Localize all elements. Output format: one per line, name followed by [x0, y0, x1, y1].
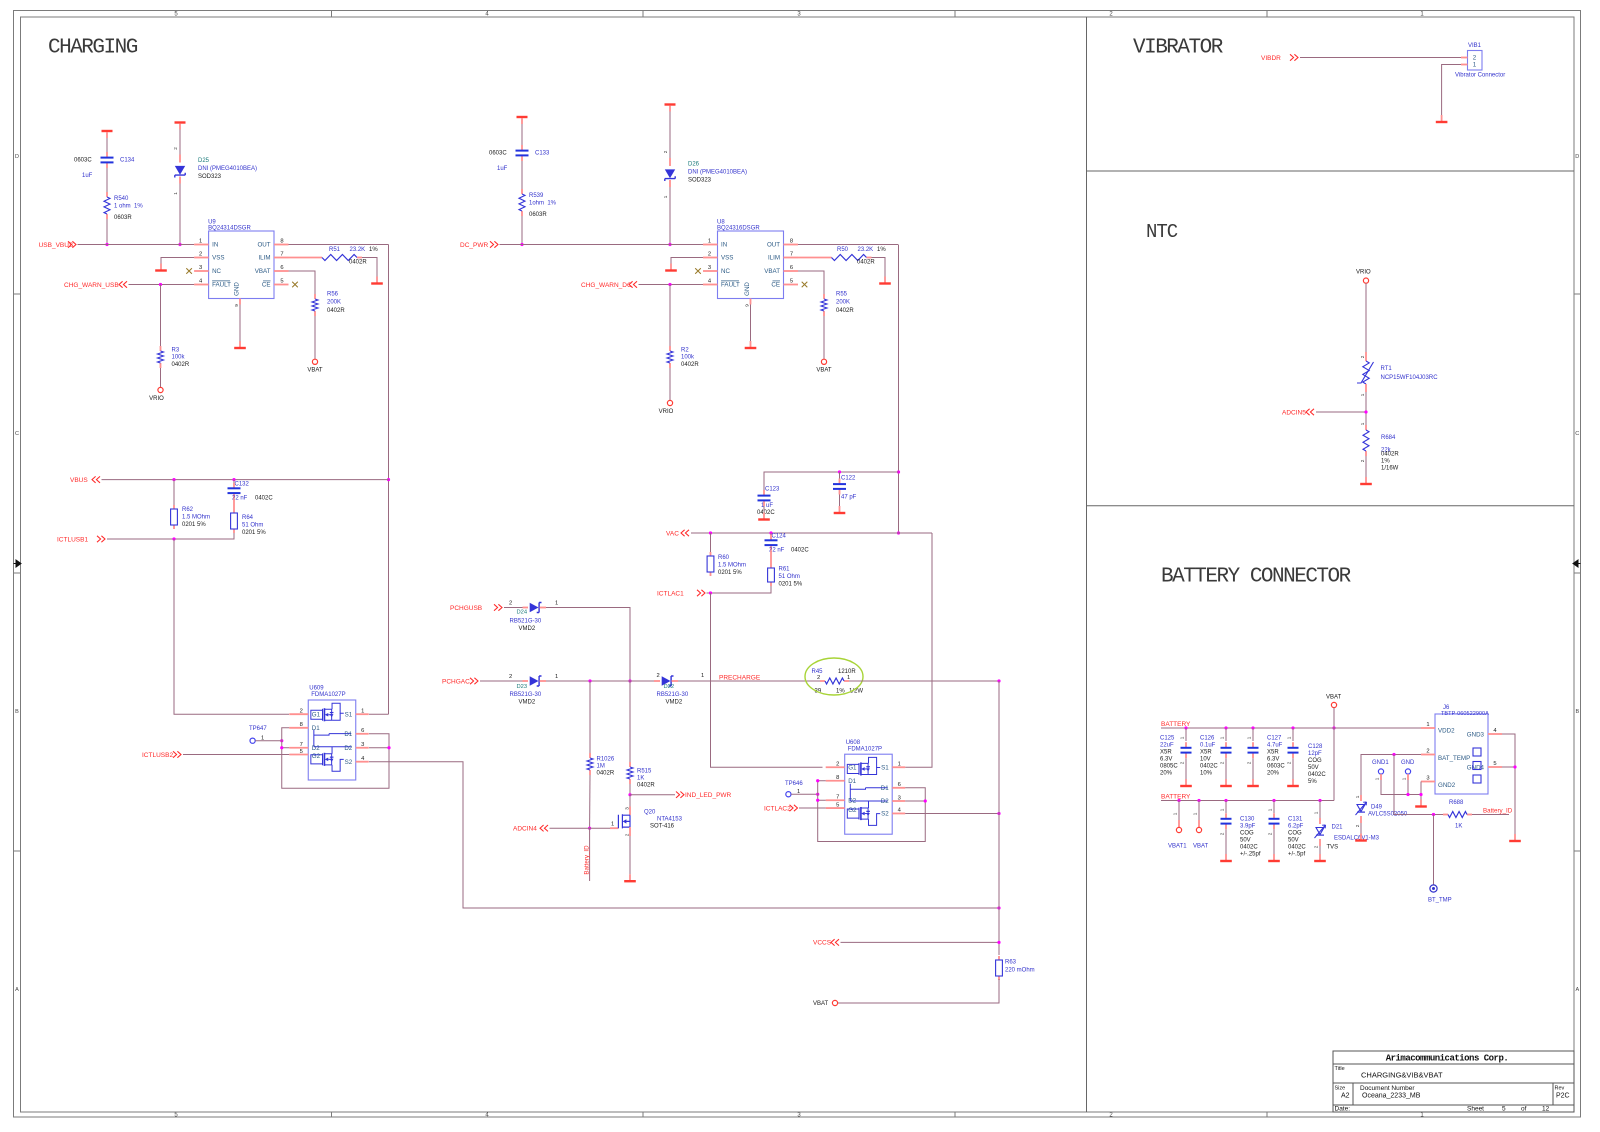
svg-text:BATTERY CONNECTOR: BATTERY CONNECTOR: [1161, 565, 1352, 588]
wire net ICTLUSB2 to U609 G2: [183, 754, 289, 756]
svg-text:VBAT1: VBAT1: [1168, 844, 1187, 850]
svg-text:PRECHARGE: PRECHARGE: [719, 674, 761, 681]
junction R515/Q20/IND_LED_PWR: [628, 793, 631, 796]
transistor Q20 (NTA4153 SOT-416): [610, 827, 618, 829]
resistor R515: [629, 762, 631, 767]
svg-text:S2: S2: [881, 811, 889, 818]
svg-text:1: 1: [1247, 736, 1252, 739]
svg-text:SOD323: SOD323: [198, 174, 222, 180]
svg-text:C124: C124: [772, 534, 787, 540]
svg-text:1: 1: [898, 762, 901, 768]
junction U609 pin3: [387, 746, 390, 749]
wire net VCCS: [841, 941, 1000, 943]
svg-text:7: 7: [300, 742, 303, 748]
terminal VBAT (bottom): [832, 1000, 837, 1005]
wire RT1 to ADCIN5 junction: [1365, 392, 1367, 425]
svg-text:SOD323: SOD323: [688, 178, 712, 184]
svg-text:0805C: 0805C: [1160, 764, 1178, 770]
resistor R63 (sense): [998, 956, 1000, 960]
svg-text:1: 1: [1473, 62, 1477, 69]
section divider NTC/BATTERY: [1087, 505, 1575, 507]
svg-text:B: B: [15, 709, 19, 715]
svg-text:C125: C125: [1160, 736, 1175, 742]
svg-text:IN: IN: [212, 242, 218, 249]
svg-text:R3: R3: [172, 348, 180, 354]
svg-text:VSS: VSS: [721, 255, 733, 262]
svg-text:VMD2: VMD2: [519, 626, 536, 632]
junction VCCS: [997, 941, 1000, 944]
svg-text:8: 8: [790, 239, 793, 245]
svg-text:R62: R62: [182, 507, 194, 513]
highlight ellipse around R45: [805, 658, 863, 695]
svg-text:2: 2: [173, 147, 178, 150]
svg-text:6: 6: [361, 728, 364, 734]
terminal BT_TMP: [1430, 885, 1437, 892]
svg-text:R51: R51: [329, 247, 341, 253]
svg-text:2: 2: [625, 833, 630, 836]
ground GND2/GND1/GND: [1420, 800, 1422, 806]
wire net USB_VBUS: [78, 244, 195, 246]
svg-text:C133: C133: [535, 151, 550, 157]
svg-text:VIB1: VIB1: [1468, 43, 1482, 49]
wire U8 GND pin 9: [750, 299, 752, 305]
svg-text:1: 1: [847, 675, 850, 681]
diode D23: [523, 680, 529, 682]
svg-text:ICTLUSB2: ICTLUSB2: [142, 752, 173, 759]
wire net PCHGUSB: [504, 607, 523, 609]
svg-text:D2: D2: [881, 798, 889, 805]
svg-text:C134: C134: [120, 158, 135, 164]
svg-text:TP646: TP646: [785, 781, 803, 787]
svg-text:VBAT: VBAT: [307, 368, 323, 374]
svg-text:NC: NC: [212, 268, 221, 275]
svg-text:S1: S1: [345, 711, 353, 718]
svg-text:RT1: RT1: [1381, 366, 1393, 372]
svg-text:U608: U608: [846, 740, 861, 746]
svg-text:CHG_WARN_DC: CHG_WARN_DC: [581, 282, 632, 289]
svg-text:2: 2: [1473, 55, 1477, 62]
junction C132/VBUS: [232, 478, 235, 481]
junction C131 top: [1272, 799, 1275, 802]
svg-text:C128: C128: [1308, 744, 1323, 750]
wire U609 S2 to lower bus: [369, 762, 999, 908]
wire U609 D1/D2 left loop: [282, 728, 389, 788]
wire net ICTLAC1: [707, 586, 772, 593]
ground R50: [884, 277, 886, 283]
svg-text:VBAT: VBAT: [813, 1001, 829, 1007]
wire net Battery_ID (J6 side): [1472, 814, 1509, 816]
svg-text:D22: D22: [664, 684, 675, 690]
junction ICTLAC1/R60: [709, 591, 712, 594]
resistor R60: [710, 533, 712, 552]
diode D21 (ESD TVS): [1319, 801, 1321, 819]
ground C127/C128 group: [1292, 779, 1294, 785]
svg-text:VBAT: VBAT: [255, 268, 271, 275]
svg-text:0603C: 0603C: [489, 151, 507, 157]
junction TP647: [280, 739, 283, 742]
svg-text:R60: R60: [718, 555, 730, 561]
wire to R3: [160, 285, 162, 347]
svg-text:1: 1: [1402, 777, 1407, 780]
svg-text:VSS: VSS: [212, 255, 224, 262]
ground U9 VSS: [160, 264, 162, 270]
section divider vertical: [1086, 17, 1088, 1112]
svg-text:R64: R64: [242, 515, 254, 521]
svg-text:D2: D2: [344, 745, 352, 752]
junction D24 branch: [628, 679, 631, 682]
svg-text:6.3V: 6.3V: [1160, 757, 1172, 763]
wire VBAT terminal to rail: [1333, 708, 1335, 728]
svg-text:3: 3: [361, 742, 364, 748]
wire to R2: [669, 285, 671, 347]
svg-text:5: 5: [300, 749, 303, 755]
svg-text:DNI (PMEG4010BEA): DNI (PMEG4010BEA): [688, 170, 747, 176]
wire R539 to input net: [521, 216, 523, 245]
svg-text:2: 2: [1180, 761, 1185, 764]
svg-text:ADCIN4: ADCIN4: [513, 826, 537, 833]
svg-text:9: 9: [234, 304, 239, 307]
svg-text:0402R: 0402R: [349, 260, 367, 266]
capacitor C122: [839, 472, 841, 480]
title block: [1333, 1051, 1574, 1112]
junction cap (C127 group) top: [1251, 726, 1254, 729]
svg-text:1/16W: 1/16W: [1381, 466, 1399, 472]
junction U608 pin3: [924, 799, 927, 802]
svg-text:0201 5%: 0201 5%: [779, 582, 803, 588]
junction CHG_WARN_USB / R3: [159, 283, 162, 286]
svg-text:0402C: 0402C: [757, 510, 775, 516]
svg-text:D21: D21: [1332, 825, 1344, 831]
svg-text:5: 5: [836, 802, 839, 808]
svg-text:D24: D24: [517, 610, 528, 616]
junction D21 top: [1318, 799, 1321, 802]
svg-text:1: 1: [1314, 811, 1319, 814]
svg-text:D25: D25: [198, 158, 210, 164]
wire net VAC rail: [691, 532, 932, 534]
ground Q20: [629, 874, 631, 880]
svg-text:1: 1: [199, 239, 202, 245]
svg-text:X5R: X5R: [1200, 750, 1212, 756]
wire net ICTLAC2 to U608 G2: [799, 807, 826, 809]
wire ICTLUSB1 to U609 G1: [174, 539, 289, 714]
svg-text:1: 1: [1173, 812, 1178, 815]
wire J6 GND2 to ground: [1420, 782, 1422, 800]
svg-text:GND3: GND3: [1467, 732, 1485, 739]
wire GND1 down: [1381, 780, 1421, 795]
svg-text:C122: C122: [841, 476, 856, 482]
svg-text:0402R: 0402R: [836, 308, 854, 314]
svg-text:6.3V: 6.3V: [1267, 757, 1279, 763]
svg-text:Date:: Date:: [1335, 1105, 1351, 1112]
wire VIB1 pin1 to ground: [1442, 65, 1461, 116]
svg-text:A2: A2: [1341, 1092, 1350, 1099]
svg-text:Size: Size: [1335, 1085, 1346, 1091]
svg-text:C: C: [15, 431, 19, 437]
svg-text:VBAT: VBAT: [1326, 695, 1342, 701]
svg-text:7: 7: [790, 252, 793, 258]
svg-text:G1: G1: [312, 711, 321, 718]
capacitor C134: [106, 152, 108, 157]
svg-text:NC: NC: [721, 268, 730, 275]
wire R56 to VBAT terminal: [314, 316, 316, 359]
svg-text:0402C: 0402C: [1240, 845, 1258, 851]
svg-text:10V: 10V: [1200, 757, 1211, 763]
resistor R61: [770, 551, 772, 564]
svg-text:BQ24314DSGR: BQ24314DSGR: [208, 226, 251, 232]
junction C124/VAC: [769, 531, 772, 534]
svg-text:+/-.5pf: +/-.5pf: [1288, 852, 1306, 858]
wire R50 to ground corner: [872, 258, 886, 277]
wire C123/C122 top rail: [764, 472, 899, 493]
svg-text:S1: S1: [881, 764, 889, 771]
IC U609 (FDMA1027P): [308, 700, 356, 780]
svg-text:1: 1: [1220, 736, 1225, 739]
wire R515 to IND_LED_PWR junction: [629, 784, 631, 795]
svg-text:0402C: 0402C: [1288, 845, 1306, 851]
svg-text:CHG_WARN_USB: CHG_WARN_USB: [64, 282, 119, 289]
no-connect X pin 3 U9: [186, 268, 192, 274]
svg-text:VIBRATOR: VIBRATOR: [1133, 36, 1224, 59]
capacitor cap (C127 group): [1252, 728, 1254, 741]
svg-text:CE: CE: [771, 282, 780, 289]
svg-text:8: 8: [836, 775, 839, 781]
wire U9 OUT vertical to VBUS/U609: [388, 245, 390, 715]
svg-text:COG: COG: [1308, 758, 1322, 764]
junction U608 pin8: [816, 779, 819, 782]
svg-text:8: 8: [300, 722, 303, 728]
svg-text:2: 2: [657, 673, 660, 679]
terminal VBAT (U9 cluster): [312, 359, 317, 364]
resistor R55: [823, 294, 825, 299]
wire TP646 to loop: [791, 793, 818, 795]
wire U9 GND pin 9: [239, 299, 241, 305]
svg-text:5: 5: [1502, 1105, 1506, 1112]
svg-text:2: 2: [836, 762, 839, 768]
net label IND_LED_PWR: [676, 792, 684, 798]
diode D24: [523, 607, 529, 609]
svg-text:R50: R50: [837, 247, 849, 253]
wire C133 to R539: [521, 161, 523, 189]
junction U9 cluster cap branch: [105, 243, 108, 246]
svg-text:2: 2: [817, 675, 820, 681]
svg-text:FAULT: FAULT: [212, 282, 231, 289]
wire U608 S2 to PRECHARGE vertical: [905, 812, 999, 814]
svg-text:100k: 100k: [681, 355, 695, 361]
ground U9 pin 9: [239, 341, 241, 347]
wire net ICTLUSB1: [107, 533, 234, 539]
svg-text:CE: CE: [262, 282, 271, 289]
wire U609 S1 to VBUS vertical: [369, 713, 389, 715]
svg-text:1.5 MOhm: 1.5 MOhm: [182, 515, 210, 521]
wire net CHG_WARN_USB: [129, 284, 195, 286]
svg-text:VCCS: VCCS: [813, 940, 832, 947]
ground D21: [1319, 854, 1321, 860]
svg-text:S2: S2: [345, 759, 353, 766]
wire U8 VSS to ground: [671, 258, 703, 264]
junction ICTLUSB1/R62: [172, 537, 175, 540]
svg-text:12: 12: [1542, 1105, 1550, 1112]
svg-text:G2: G2: [848, 807, 857, 814]
svg-text:ICTLAC2: ICTLAC2: [764, 805, 791, 812]
svg-text:2: 2: [199, 252, 202, 258]
svg-text:IN: IN: [721, 242, 727, 249]
wire net IND_LED_PWR: [630, 794, 675, 796]
svg-text:1M: 1M: [597, 764, 605, 770]
junction R60/VAC: [709, 531, 712, 534]
svg-text:R63: R63: [1005, 960, 1017, 966]
svg-text:D1: D1: [344, 731, 352, 738]
svg-text:0.1uF: 0.1uF: [1200, 743, 1216, 749]
svg-text:GND: GND: [744, 282, 751, 296]
resistor R45: [820, 680, 825, 682]
svg-text:C: C: [1575, 431, 1579, 437]
svg-text:0402C: 0402C: [1308, 772, 1326, 778]
svg-text:Title: Title: [1335, 1066, 1345, 1072]
svg-text:1uF: 1uF: [82, 173, 93, 179]
svg-text:Arimacommunications Corp.: Arimacommunications Corp.: [1386, 1054, 1509, 1064]
wire R51 to ground corner: [362, 258, 377, 277]
svg-text:1: 1: [1355, 795, 1360, 798]
wire R2 to VRIO: [669, 368, 671, 400]
svg-text:23.2K: 23.2K: [350, 247, 366, 253]
wire ICTLAC1 to U608 G1: [711, 593, 823, 767]
wire net BATTERY bottom rail: [1161, 800, 1334, 802]
junction C126 top: [1224, 726, 1227, 729]
IC U9 (BQ24314DSGR): [209, 231, 274, 299]
svg-text:RB521G-30: RB521G-30: [510, 619, 542, 625]
svg-text:1: 1: [1287, 736, 1292, 739]
capacitor C127/C128 group: [1292, 728, 1294, 741]
ground C126: [1225, 779, 1227, 785]
IC U608 (FDMA1027P): [845, 754, 893, 834]
wire BAT_TEMP to R688/BT_TMP: [1394, 755, 1443, 815]
resistor R62: [173, 480, 175, 505]
wire R1026 to ADCIN4 junction: [589, 775, 591, 828]
wire U608 pin7 to loop: [818, 799, 826, 801]
wire PCHGAC to R1026: [589, 681, 591, 753]
svg-text:C131: C131: [1288, 817, 1303, 823]
wire VAC to U608 S1: [905, 533, 932, 767]
svg-text:50V: 50V: [1288, 838, 1299, 844]
svg-text:ICTLUSB1: ICTLUSB1: [57, 536, 88, 543]
section divider VIBRATOR/NTC: [1087, 170, 1575, 172]
svg-text:CHARGING&VIB&VBAT: CHARGING&VIB&VBAT: [1361, 1071, 1443, 1080]
svg-text:100k: 100k: [172, 355, 186, 361]
ground C131: [1273, 854, 1275, 860]
terminal VBAT1: [1178, 801, 1180, 821]
junction CHG_WARN_DC / R2: [668, 283, 671, 286]
wire OUT net (U8 cluster): [798, 244, 899, 246]
svg-text:GND2: GND2: [1438, 782, 1456, 789]
svg-text:R56: R56: [327, 292, 339, 298]
resistor R539: [521, 189, 523, 194]
wire J6 GND4: [1502, 766, 1515, 768]
resistor R2: [669, 346, 671, 351]
svg-text:D: D: [15, 154, 19, 160]
svg-text:1: 1: [1180, 736, 1185, 739]
svg-text:1: 1: [555, 674, 558, 680]
svg-text:1: 1: [1375, 777, 1380, 780]
fold mark left: [14, 560, 22, 567]
svg-text:1: 1: [361, 708, 364, 714]
svg-text:G1: G1: [848, 764, 857, 771]
capacitor C125: [1185, 728, 1187, 741]
svg-text:GND4: GND4: [1467, 765, 1485, 772]
wire OUT net (U9 cluster): [289, 244, 389, 246]
svg-text:D1: D1: [881, 785, 889, 792]
svg-text:1: 1: [1360, 422, 1365, 425]
svg-text:10%: 10%: [1200, 771, 1213, 777]
wire VRIO to RT1: [1365, 283, 1367, 352]
junction C125 top: [1184, 726, 1187, 729]
wire R45 to PRECHARGE vertical: [849, 680, 999, 682]
svg-text:FDMA1027P: FDMA1027P: [848, 746, 882, 752]
svg-text:0402R: 0402R: [597, 771, 615, 777]
svg-text:0402R: 0402R: [1381, 452, 1399, 458]
svg-text:1 ohm 1%: 1 ohm 1%: [114, 204, 143, 210]
svg-text:2: 2: [1268, 832, 1273, 835]
resistor R64: [233, 499, 235, 509]
svg-text:0402C: 0402C: [1200, 764, 1218, 770]
svg-text:5: 5: [790, 279, 793, 285]
junction lower bus / PRECHARGE vertical: [997, 906, 1000, 909]
wire net Battery_ID (dangling): [589, 828, 591, 881]
wire BT_TMP: [1433, 815, 1435, 886]
junction TP646: [816, 793, 819, 796]
svg-text:0603C: 0603C: [74, 158, 92, 164]
junction VBAT stub: [1197, 799, 1200, 802]
resistor R51: [322, 255, 357, 261]
ground VIB1: [1441, 115, 1443, 121]
svg-text:VMD2: VMD2: [666, 699, 683, 705]
wire U9 VSS to ground: [161, 258, 194, 264]
svg-text:1: 1: [611, 821, 614, 827]
svg-text:D26: D26: [688, 162, 700, 168]
resistor R688: [1443, 814, 1448, 816]
wire J6 GND3: [1502, 734, 1515, 834]
svg-text:R688: R688: [1449, 800, 1464, 806]
junction VBAT1 stub: [1177, 799, 1180, 802]
junction U9 cluster diode branch: [178, 243, 181, 246]
wire battery rails link: [1333, 728, 1335, 801]
svg-text:Oceana_2233_MB: Oceana_2233_MB: [1362, 1092, 1421, 1099]
svg-text:ADCIN5: ADCIN5: [1282, 409, 1306, 416]
svg-text:VBAT: VBAT: [1193, 844, 1209, 850]
svg-text:VRIO: VRIO: [1356, 270, 1371, 276]
svg-text:3.9pF: 3.9pF: [1240, 824, 1256, 830]
power U9 cluster diode rail: [175, 121, 186, 123]
svg-text:0603C: 0603C: [1267, 764, 1285, 770]
svg-text:1 uF: 1 uF: [761, 503, 773, 509]
wire D25 to input net: [179, 184, 181, 245]
svg-text:D23: D23: [517, 684, 528, 690]
wire R63 to VBAT terminal: [838, 979, 999, 1003]
svg-text:BATTERY: BATTERY: [1161, 793, 1191, 800]
svg-text:20%: 20%: [1160, 771, 1173, 777]
resistor R1026: [589, 753, 591, 758]
svg-text:DC_PWR: DC_PWR: [460, 242, 488, 249]
svg-text:FAULT: FAULT: [721, 282, 740, 289]
ground C122: [839, 506, 841, 512]
svg-text:R55: R55: [836, 292, 848, 298]
svg-text:12pF: 12pF: [1308, 751, 1322, 757]
svg-text:200K: 200K: [836, 300, 850, 306]
no-connect X pin 5 U8: [802, 282, 808, 288]
wire R55 to VBAT terminal: [823, 316, 825, 359]
svg-text:VRIO: VRIO: [149, 396, 164, 402]
svg-text:A: A: [1575, 987, 1579, 993]
connector VIB1 (Vibrator Connector): [1468, 51, 1483, 71]
